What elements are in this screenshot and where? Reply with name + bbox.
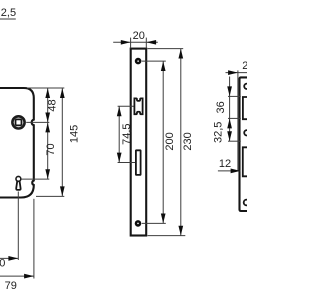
ext line case right vertical bbox=[33, 199, 35, 279]
keyhole slot bbox=[16, 181, 20, 190]
arrow 70 top bbox=[45, 123, 50, 133]
faceplate outline bbox=[131, 49, 147, 236]
screw hole top bbox=[135, 58, 142, 65]
svg-text:48: 48 bbox=[47, 99, 59, 111]
arrow 230 bottom bbox=[178, 226, 183, 236]
ext line case top bbox=[27, 87, 64, 89]
ext line plate right top bbox=[145, 38, 147, 49]
arrow 70 bottom bbox=[45, 169, 50, 179]
ext line hole top bbox=[142, 60, 166, 62]
arrow 48 top bbox=[45, 88, 50, 98]
svg-text:22: 22 bbox=[242, 60, 247, 72]
strike case outline bbox=[240, 77, 248, 211]
ext line plate left top bbox=[130, 38, 132, 49]
latch opening bbox=[243, 97, 247, 119]
ext line case bottom bbox=[36, 195, 64, 197]
dim line 145 bbox=[61, 88, 63, 196]
ext line hole bottom bbox=[142, 222, 166, 224]
screw hole 1 bbox=[244, 84, 249, 89]
ext line latch axis bbox=[118, 105, 134, 107]
dim line 48/70 bbox=[47, 88, 49, 179]
screw hole bottom bbox=[135, 220, 142, 227]
ext line plate top right bbox=[148, 48, 184, 50]
ext line latch top bbox=[228, 95, 241, 97]
ext line latch bottom bbox=[228, 117, 241, 119]
ext line keyhole axis bbox=[21, 178, 49, 180]
arrow 200 top bbox=[161, 61, 166, 71]
arrow 145 top bbox=[60, 88, 65, 98]
lock case outline bbox=[0, 88, 34, 198]
dim line 22 bbox=[226, 72, 248, 74]
deadbolt opening bbox=[243, 147, 247, 176]
arrow 32,5 top bbox=[227, 119, 232, 129]
dim line 230 bbox=[180, 49, 182, 236]
arrow 36 bbox=[227, 86, 232, 96]
dim line 79 bbox=[0, 275, 34, 277]
ext line deadbolt top bbox=[228, 140, 241, 142]
arrow 200 bottom bbox=[161, 214, 166, 224]
svg-text:2,5: 2,5 bbox=[1, 7, 16, 19]
svg-text:12: 12 bbox=[219, 158, 231, 170]
follower square bbox=[16, 119, 22, 125]
ext line deadbolt axis bbox=[118, 162, 136, 164]
arrow 20 right bbox=[146, 40, 156, 45]
dim line under 2,5 bbox=[0, 18, 16, 20]
arrow 22 bbox=[228, 70, 238, 75]
screw hole 2 bbox=[244, 130, 249, 135]
svg-text:70: 70 bbox=[45, 143, 57, 155]
arrow 74,5 bottom bbox=[117, 153, 122, 163]
dim line 74,5 bbox=[118, 106, 120, 162]
ext line 22 vertical bbox=[237, 70, 239, 170]
ext line plate bottom right bbox=[148, 235, 186, 237]
dim line 36/32,5 bbox=[229, 77, 231, 142]
arrow 74,5 top bbox=[117, 106, 122, 116]
svg-text:230: 230 bbox=[182, 132, 194, 150]
svg-text:50: 50 bbox=[0, 258, 5, 270]
arrow 48 bottom bbox=[45, 113, 50, 123]
svg-text:20: 20 bbox=[133, 30, 145, 42]
arrow 32,5 bottom bbox=[227, 131, 232, 141]
arrow 145 bottom bbox=[60, 186, 65, 196]
svg-text:200: 200 bbox=[164, 132, 176, 150]
latch cutout bbox=[134, 98, 142, 114]
svg-text:145: 145 bbox=[69, 125, 81, 143]
dim line 12 bbox=[218, 170, 241, 172]
arrow 12 bbox=[231, 169, 241, 174]
ext line follower axis bbox=[26, 121, 49, 123]
svg-text:36: 36 bbox=[215, 101, 227, 113]
arrow 230 top bbox=[178, 49, 183, 59]
keyhole circle bbox=[16, 176, 21, 181]
dim line 50 bbox=[0, 257, 18, 259]
arrow 79 bbox=[24, 274, 34, 279]
deadbolt slot bbox=[136, 150, 141, 175]
follower ring bbox=[12, 116, 24, 128]
svg-text:32,5: 32,5 bbox=[213, 122, 225, 143]
arrow 50 bbox=[8, 256, 18, 261]
arrow 20 left bbox=[121, 40, 131, 45]
dim line 200 bbox=[162, 61, 164, 223]
svg-text:74,5: 74,5 bbox=[121, 123, 133, 144]
screw hole 3 bbox=[244, 200, 250, 206]
dim line 20 bbox=[113, 41, 158, 43]
ext line keyhole axis vertical bbox=[17, 192, 19, 261]
svg-text:79: 79 bbox=[5, 280, 17, 292]
